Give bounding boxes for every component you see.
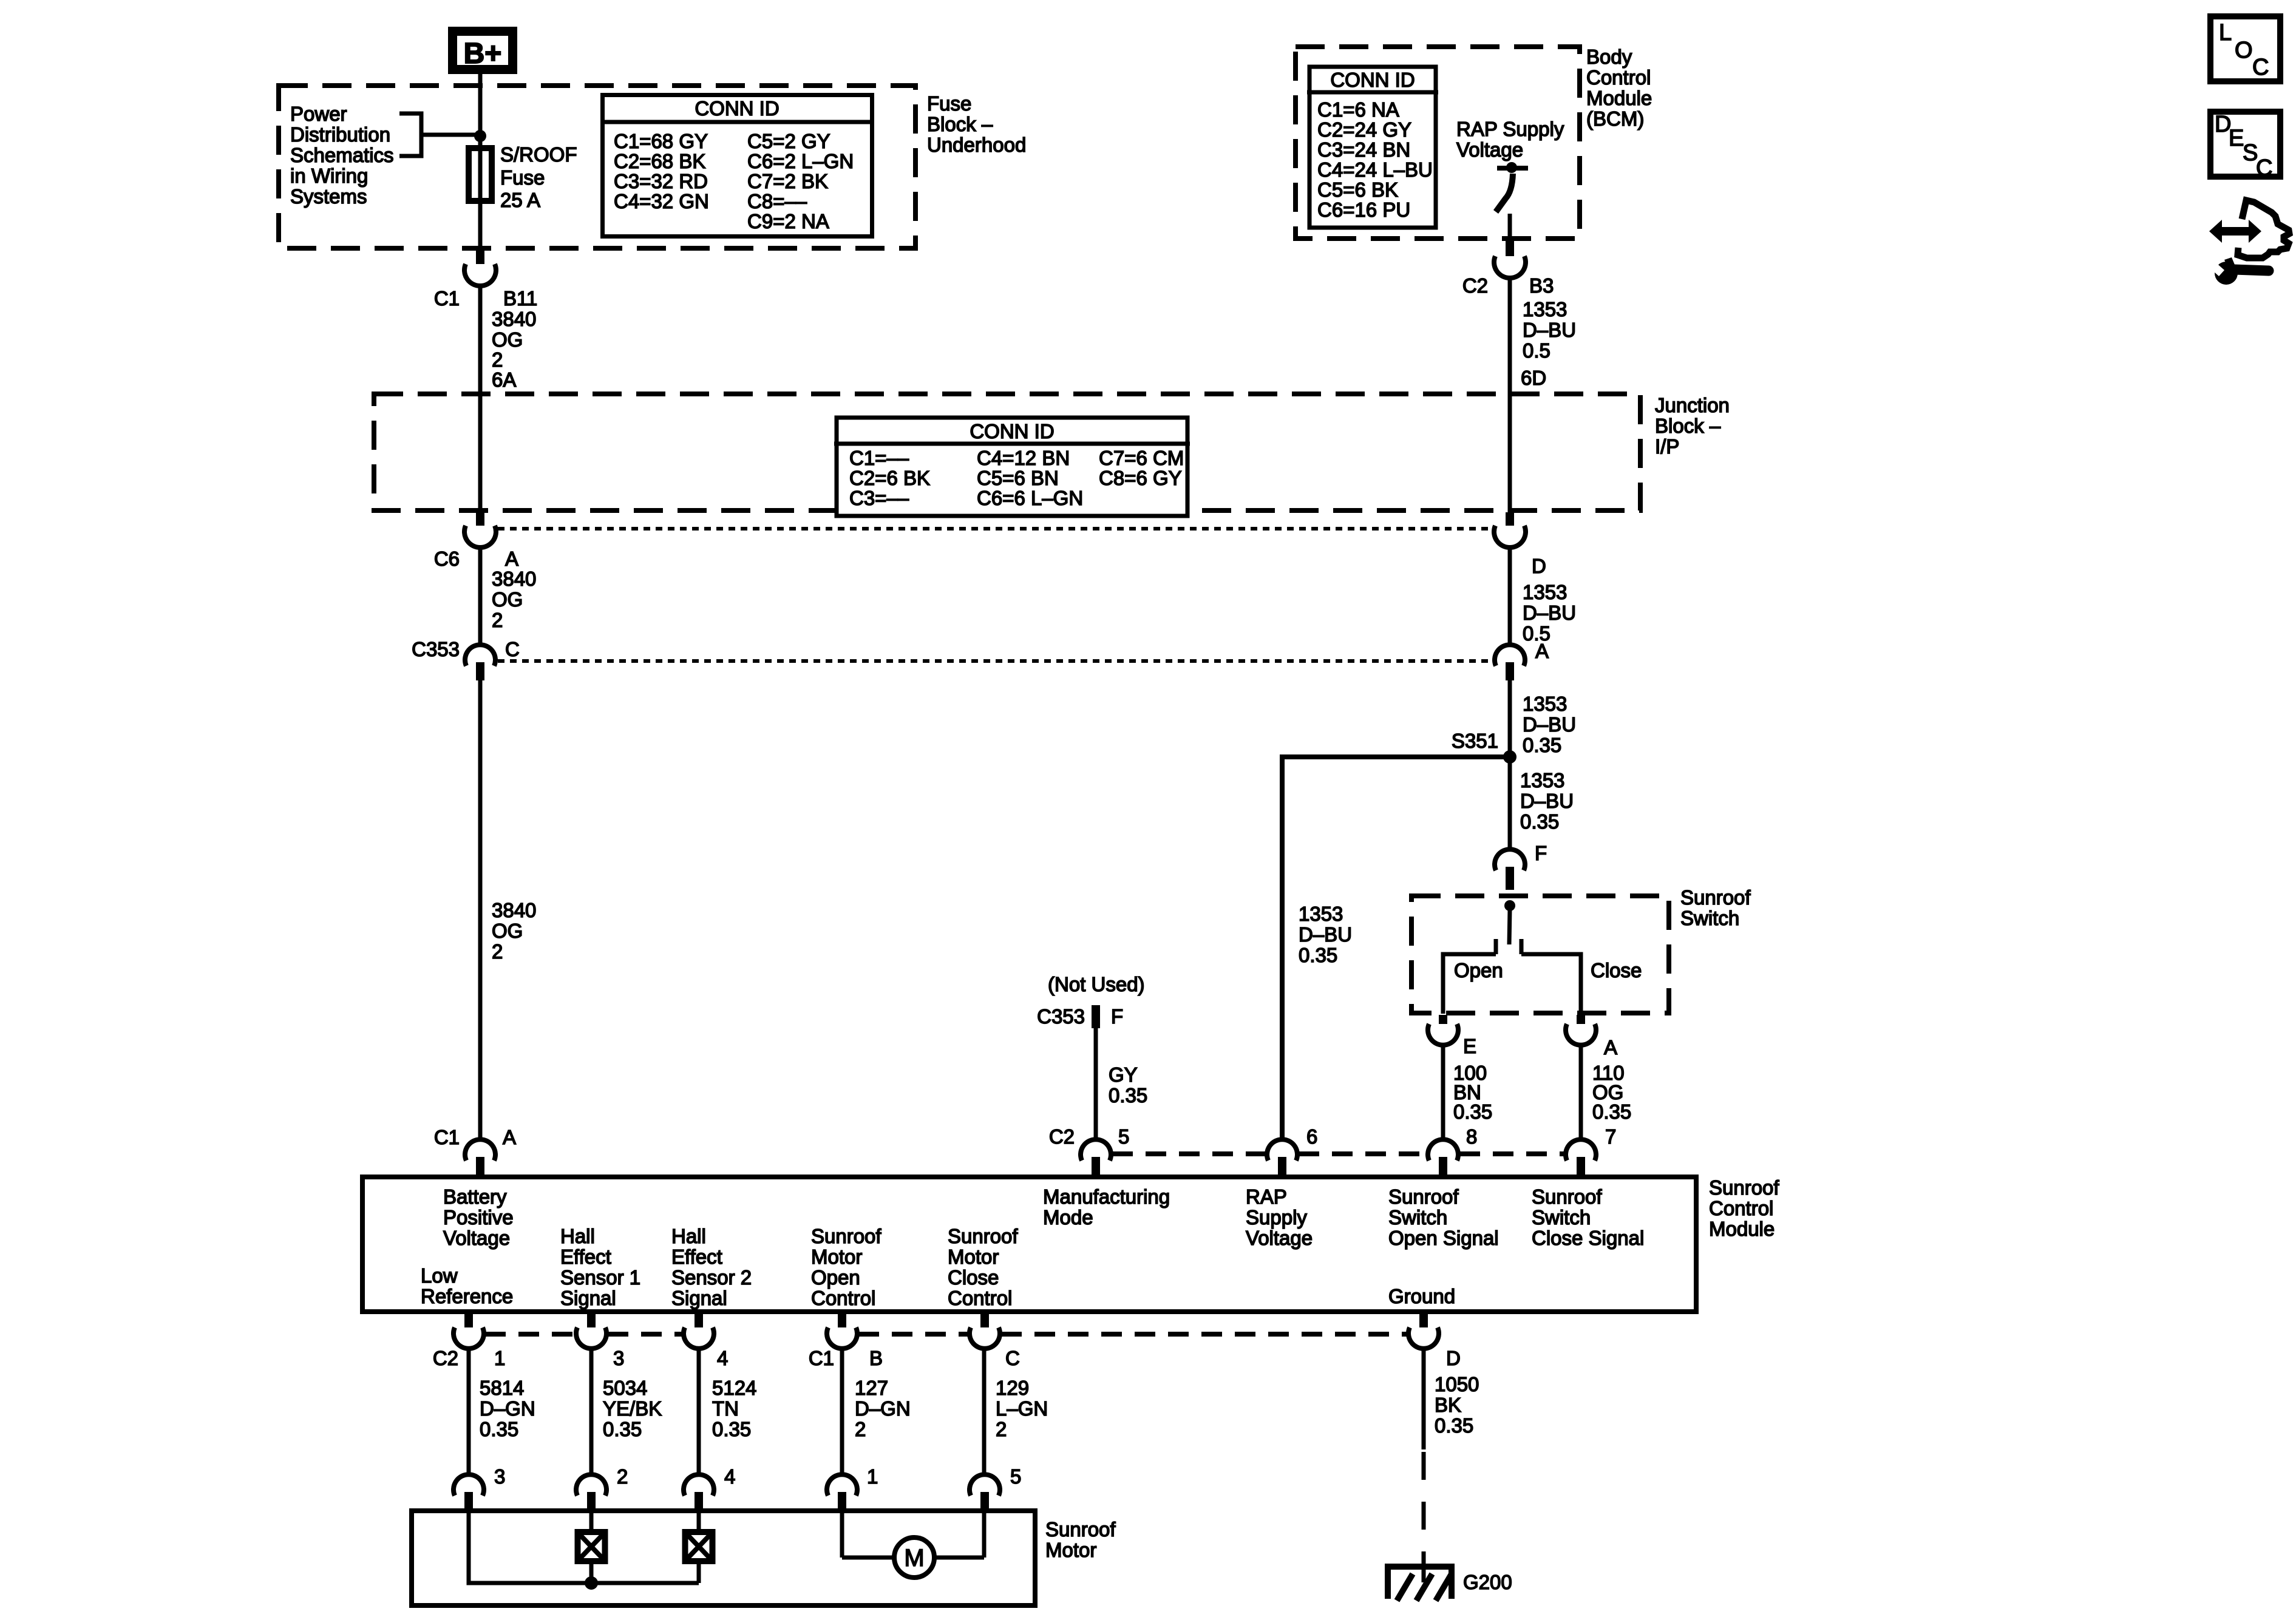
CONN ID table (fuse block) [600, 95, 874, 237]
svg-text:CONN ID: CONN ID [970, 420, 1054, 442]
svg-text:Sunroof: Sunroof [1045, 1518, 1116, 1541]
svg-text:Control: Control [948, 1287, 1012, 1309]
connector C2 / B3 below BCM [1506, 240, 1514, 257]
wire D to A [1508, 545, 1512, 647]
svg-text:TN: TN [712, 1397, 739, 1420]
connector C353 / C [465, 645, 495, 666]
svg-text:CONN ID: CONN ID [695, 97, 779, 120]
svg-text:2: 2 [492, 940, 503, 963]
svg-text:Positive: Positive [443, 1206, 514, 1229]
svg-text:1: 1 [494, 1347, 505, 1369]
svg-text:3840: 3840 [492, 899, 536, 921]
svg-text:C1=6 NA: C1=6 NA [1317, 98, 1399, 121]
svg-text:A: A [1535, 640, 1549, 662]
svg-text:C8=6 GY: C8=6 GY [1099, 467, 1182, 489]
connector 4 at motor [684, 1474, 714, 1496]
svg-text:D–BU: D–BU [1523, 713, 1576, 736]
svg-text:in Wiring: in Wiring [290, 164, 368, 187]
svg-text:C6=2 L–GN: C6=2 L–GN [747, 150, 854, 172]
svg-text:C6=16 PU: C6=16 PU [1317, 198, 1410, 221]
svg-text:D–BU: D–BU [1520, 790, 1574, 812]
svg-text:Switch: Switch [1532, 1206, 1591, 1229]
svg-text:Switch: Switch [1388, 1206, 1447, 1229]
svg-text:Sunroof: Sunroof [1680, 886, 1751, 909]
sunroof switch lever [1509, 909, 1510, 944]
svg-text:6: 6 [1306, 1125, 1317, 1148]
svg-text:Open Signal: Open Signal [1388, 1227, 1499, 1249]
svg-text:RAP: RAP [1246, 1185, 1287, 1208]
connector pin 8 at module (open signal) [1428, 1139, 1458, 1161]
svg-text:Sunroof: Sunroof [948, 1225, 1018, 1247]
svg-text:C8=––: C8=–– [747, 190, 807, 212]
svg-text:C: C [2252, 55, 2269, 80]
svg-text:Effect: Effect [671, 1246, 722, 1268]
svg-text:2: 2 [492, 348, 503, 371]
connector 5 at motor [970, 1474, 1000, 1496]
svg-text:C6=6 L–GN: C6=6 L–GN [977, 487, 1083, 509]
connector 3 at motor [453, 1474, 484, 1496]
svg-text:C1=––: C1=–– [849, 447, 909, 469]
svg-text:C3=32 RD: C3=32 RD [614, 170, 708, 192]
svg-text:Junction: Junction [1655, 394, 1730, 416]
ground wire dashed segment [1422, 1452, 1426, 1565]
svg-text:5: 5 [1010, 1465, 1021, 1488]
svg-text:Ground: Ground [1388, 1285, 1455, 1307]
svg-text:Voltage: Voltage [1246, 1227, 1313, 1249]
svg-text:D–BU: D–BU [1523, 602, 1576, 624]
fuse block underhood dashed box [279, 86, 915, 248]
svg-text:OG: OG [492, 328, 523, 351]
svg-text:C353: C353 [412, 638, 460, 660]
wire B3 to junction block [1508, 276, 1512, 512]
svg-text:C2: C2 [433, 1347, 458, 1369]
wire E to pin 8 [1441, 1043, 1445, 1142]
svg-text:Hall: Hall [671, 1225, 706, 1247]
wire pinB to motor 1 [840, 1346, 844, 1477]
connector A on dotted line 2 [1495, 645, 1525, 666]
svg-text:0.35: 0.35 [480, 1418, 518, 1440]
svg-text:D–BU: D–BU [1523, 319, 1576, 341]
CONN ID table (BCM) [1307, 67, 1438, 228]
svg-text:C4=12 BN: C4=12 BN [977, 447, 1070, 469]
wire: motor low reference bus [469, 1513, 699, 1583]
svg-text:C5=2 GY: C5=2 GY [747, 130, 830, 152]
wire: close throw [1521, 954, 1581, 1014]
svg-text:C4=32 GN: C4=32 GN [614, 190, 709, 212]
svg-text:C9=2 NA: C9=2 NA [747, 210, 829, 232]
svg-text:Signal: Signal [671, 1287, 727, 1309]
svg-text:6D: 6D [1521, 367, 1546, 389]
svg-text:C7=2 BK: C7=2 BK [747, 170, 828, 192]
svg-text:Motor: Motor [1045, 1539, 1096, 1561]
svg-text:Power: Power [290, 103, 347, 125]
svg-text:Control: Control [811, 1287, 875, 1309]
svg-text:F: F [1111, 1005, 1123, 1028]
body control module dashed box [1296, 47, 1580, 239]
svg-text:2: 2 [855, 1418, 866, 1440]
svg-text:0.35: 0.35 [1592, 1100, 1631, 1123]
node: bus junction dot [585, 1576, 598, 1590]
svg-text:C1=68 GY: C1=68 GY [614, 130, 708, 152]
svg-text:Underhood: Underhood [927, 134, 1026, 156]
dashed connector line across module bottom pins [485, 1332, 575, 1337]
svg-text:3: 3 [613, 1347, 624, 1369]
svg-text:Block –: Block – [927, 113, 993, 135]
wire pin4 to motor 4 [697, 1346, 701, 1477]
svg-text:Block –: Block – [1655, 415, 1721, 437]
svg-text:Effect: Effect [560, 1246, 611, 1268]
svg-text:Module: Module [1586, 87, 1652, 109]
svg-text:1353: 1353 [1299, 903, 1343, 925]
svg-text:Close: Close [948, 1266, 999, 1289]
svg-text:Body: Body [1586, 46, 1632, 68]
svg-text:C2=24 GY: C2=24 GY [1317, 118, 1411, 141]
svg-text:C6: C6 [434, 547, 460, 570]
svg-text:Supply: Supply [1246, 1206, 1307, 1229]
svg-text:0.35: 0.35 [1523, 734, 1561, 756]
svg-text:C4=24 L–BU: C4=24 L–BU [1317, 158, 1433, 181]
motor M [840, 1513, 844, 1558]
fuse S/ROOF 25 A [478, 136, 483, 248]
svg-text:1: 1 [867, 1465, 878, 1488]
svg-text:Sunroof: Sunroof [1709, 1176, 1779, 1199]
svg-text:2: 2 [617, 1465, 628, 1488]
svg-text:(BCM): (BCM) [1586, 107, 1644, 130]
svg-text:C2=6 BK: C2=6 BK [849, 467, 930, 489]
ground G200 [1385, 1564, 1455, 1601]
svg-text:Systems: Systems [290, 185, 367, 208]
connector C2 / 5 at module (manufacturing mode) [1081, 1139, 1111, 1161]
svg-text:B: B [869, 1347, 883, 1369]
svg-text:(Not Used): (Not Used) [1048, 973, 1145, 995]
node: junction dot at B+ feed [474, 130, 486, 142]
svg-text:Control: Control [1709, 1197, 1773, 1219]
wire pin3 to motor 2 [589, 1346, 594, 1477]
wire C353 to sunroof control module pin A [478, 680, 483, 1142]
svg-text:Motor: Motor [811, 1246, 862, 1268]
svg-text:Schematics: Schematics [290, 144, 394, 166]
svg-text:A: A [1604, 1036, 1617, 1059]
connector C1 / A at module top [465, 1139, 495, 1161]
svg-text:C2=68 BK: C2=68 BK [614, 150, 705, 172]
connector pin 7 at module (close signal) [1566, 1139, 1596, 1161]
sunroof switch contacts [1494, 939, 1498, 954]
svg-text:C: C [1005, 1347, 1020, 1369]
connector D below module (ground) [1419, 1314, 1428, 1332]
wire F stub to pin 5 [1094, 1028, 1098, 1142]
svg-text:S351: S351 [1452, 730, 1498, 752]
connector 3 below module [587, 1314, 596, 1332]
svg-text:1353: 1353 [1523, 298, 1567, 320]
connector 2 at motor [576, 1474, 606, 1496]
svg-text:0.35: 0.35 [603, 1418, 642, 1440]
bracket to note [399, 114, 477, 156]
dashed connector line across module top pins [1112, 1151, 1266, 1156]
wire C1 to junction block [478, 287, 483, 512]
svg-text:Distribution: Distribution [290, 123, 390, 146]
svg-text:C5=6 BN: C5=6 BN [977, 467, 1059, 489]
dotted interface line 2 [498, 659, 1492, 663]
connector pin 6 at module (RAP supply) [1267, 1139, 1297, 1161]
svg-text:D: D [1532, 555, 1546, 577]
svg-text:GY: GY [1109, 1063, 1138, 1086]
svg-text:0.5: 0.5 [1523, 339, 1550, 362]
svg-text:Reference: Reference [421, 1285, 513, 1307]
svg-text:0.35: 0.35 [1453, 1100, 1492, 1123]
svg-text:CONN ID: CONN ID [1330, 69, 1415, 91]
svg-text:C1: C1 [434, 287, 460, 310]
svg-text:0.35: 0.35 [712, 1418, 751, 1440]
svg-text:5034: 5034 [603, 1377, 647, 1399]
connector C1 / B below module [838, 1314, 846, 1332]
svg-text:B3: B3 [1529, 274, 1554, 297]
svg-text:129: 129 [996, 1377, 1029, 1399]
connector D at junction block bottom (right) [1506, 512, 1514, 529]
svg-text:RAP Supply: RAP Supply [1456, 118, 1564, 140]
svg-text:Close Signal: Close Signal [1532, 1227, 1644, 1249]
svg-text:C3=24 BN: C3=24 BN [1317, 138, 1410, 161]
svg-text:5124: 5124 [712, 1377, 756, 1399]
svg-text:25 A: 25 A [500, 189, 540, 211]
connector C6 / A at junction block bottom (left) [476, 512, 484, 529]
svg-text:E: E [2229, 126, 2244, 151]
svg-text:4: 4 [724, 1465, 735, 1488]
svg-text:C1: C1 [809, 1347, 834, 1369]
svg-text:Voltage: Voltage [443, 1227, 510, 1249]
svg-text:Low: Low [421, 1264, 458, 1287]
connector C2 / 1 below module [464, 1314, 473, 1332]
svg-text:Mode: Mode [1043, 1206, 1093, 1229]
wire S351 branch to RAP supply pin 6 [1282, 757, 1510, 1142]
svg-text:Open: Open [811, 1266, 860, 1289]
connector 1 at motor [827, 1474, 857, 1496]
sunroof switch dashed box [1411, 896, 1669, 1013]
svg-text:YE/BK: YE/BK [603, 1397, 662, 1420]
svg-text:1050: 1050 [1435, 1373, 1479, 1395]
svg-text:Sensor 2: Sensor 2 [671, 1266, 752, 1289]
svg-text:O: O [2235, 38, 2253, 63]
wire BCM switch down [1508, 214, 1512, 239]
ground wire from pin D [1422, 1346, 1426, 1449]
svg-text:BK: BK [1435, 1394, 1461, 1416]
svg-text:L: L [2219, 20, 2232, 46]
svg-text:Sunroof: Sunroof [1388, 1185, 1459, 1208]
wire C6 to C353 [478, 545, 483, 647]
connector C below module [980, 1314, 989, 1332]
svg-text:2: 2 [996, 1418, 1007, 1440]
svg-text:C: C [505, 638, 520, 660]
connector C1 / B11 below fuse block [476, 250, 484, 268]
svg-text:0.35: 0.35 [1520, 810, 1559, 833]
svg-text:A: A [503, 1126, 516, 1148]
wire pinC to motor 5 [982, 1346, 987, 1477]
DESC icon box [2210, 112, 2280, 177]
svg-text:D–GN: D–GN [855, 1397, 911, 1420]
svg-text:C5=6 BK: C5=6 BK [1317, 178, 1398, 201]
svg-text:1353: 1353 [1523, 693, 1567, 715]
svg-text:Fuse: Fuse [927, 92, 971, 115]
wire pin1 to motor 3 [467, 1346, 471, 1477]
svg-text:E: E [1463, 1035, 1476, 1057]
svg-text:C: C [2256, 155, 2272, 181]
svg-text:M: M [904, 1545, 924, 1571]
hall sensor 1 (X square) [589, 1513, 594, 1532]
svg-text:D–GN: D–GN [480, 1397, 535, 1420]
svg-text:Sunroof: Sunroof [811, 1225, 881, 1247]
svg-text:OG: OG [492, 920, 523, 942]
svg-text:C353: C353 [1037, 1005, 1085, 1028]
svg-text:L–GN: L–GN [996, 1397, 1048, 1420]
repair icon: double arrow, outline, wrench [2209, 200, 2289, 285]
svg-text:Open: Open [1454, 959, 1503, 981]
dotted interface line 1 [498, 527, 1492, 531]
svg-text:Control: Control [1586, 66, 1651, 89]
svg-text:5: 5 [1118, 1125, 1129, 1148]
connector A below switch (close) [1577, 1015, 1585, 1027]
sunroof switch pivot dot [1504, 900, 1515, 911]
wire: open throw [1443, 954, 1496, 1014]
svg-text:Manufacturing: Manufacturing [1043, 1185, 1170, 1208]
svg-text:0.35: 0.35 [1109, 1084, 1147, 1107]
svg-text:A: A [505, 547, 518, 570]
svg-text:1353: 1353 [1523, 581, 1567, 603]
svg-text:5814: 5814 [480, 1377, 524, 1399]
CONN ID table (junction block) [834, 418, 1190, 516]
svg-text:4: 4 [717, 1347, 728, 1369]
svg-text:7: 7 [1605, 1125, 1616, 1148]
svg-text:Switch: Switch [1680, 907, 1739, 929]
svg-text:OG: OG [492, 588, 523, 611]
svg-text:C7=6 CM: C7=6 CM [1099, 447, 1184, 469]
svg-text:B11: B11 [503, 287, 537, 310]
svg-text:8: 8 [1466, 1125, 1477, 1148]
connector 4 below module [695, 1314, 703, 1332]
svg-text:B+: B+ [464, 38, 502, 70]
svg-text:C1: C1 [434, 1126, 460, 1148]
svg-text:Signal: Signal [560, 1287, 616, 1309]
svg-text:3840: 3840 [492, 308, 536, 330]
svg-text:Sunroof: Sunroof [1532, 1185, 1602, 1208]
svg-text:Battery: Battery [443, 1185, 507, 1208]
svg-text:S/ROOF: S/ROOF [500, 143, 577, 166]
junction block I/P dashed box [374, 394, 1640, 510]
svg-text:3840: 3840 [492, 568, 536, 590]
hall sensor 2 (X square) [697, 1513, 701, 1532]
svg-text:G200: G200 [1463, 1571, 1512, 1593]
LOC icon box [2210, 16, 2280, 81]
svg-text:Voltage: Voltage [1456, 138, 1523, 161]
RAP supply switch inside BCM [1497, 166, 1528, 171]
wire A to pin 7 [1579, 1043, 1583, 1142]
svg-text:6A: 6A [492, 368, 516, 391]
svg-text:C3=––: C3=–– [849, 487, 909, 509]
svg-text:2: 2 [492, 609, 503, 631]
svg-text:0.35: 0.35 [1299, 944, 1337, 966]
svg-text:Sensor 1: Sensor 1 [560, 1266, 640, 1289]
svg-text:I/P: I/P [1655, 435, 1679, 458]
svg-text:3: 3 [494, 1465, 505, 1488]
svg-text:D–BU: D–BU [1299, 923, 1352, 946]
svg-text:0.35: 0.35 [1435, 1414, 1473, 1437]
svg-text:Fuse: Fuse [500, 166, 545, 189]
svg-text:D: D [1446, 1347, 1461, 1369]
svg-text:C2: C2 [1049, 1125, 1075, 1148]
B+ power terminal [453, 32, 513, 70]
svg-text:C2: C2 [1462, 274, 1488, 297]
svg-text:127: 127 [855, 1377, 888, 1399]
svg-text:Hall: Hall [560, 1225, 595, 1247]
svg-text:1353: 1353 [1520, 769, 1564, 792]
svg-text:F: F [1535, 842, 1547, 864]
wire B+ down to fuse [478, 74, 483, 136]
svg-text:Module: Module [1709, 1218, 1775, 1240]
wire A to S351 [1508, 680, 1512, 852]
svg-text:Motor: Motor [948, 1246, 999, 1268]
connector E below switch (open) [1439, 1015, 1447, 1027]
svg-text:Close: Close [1591, 959, 1642, 981]
